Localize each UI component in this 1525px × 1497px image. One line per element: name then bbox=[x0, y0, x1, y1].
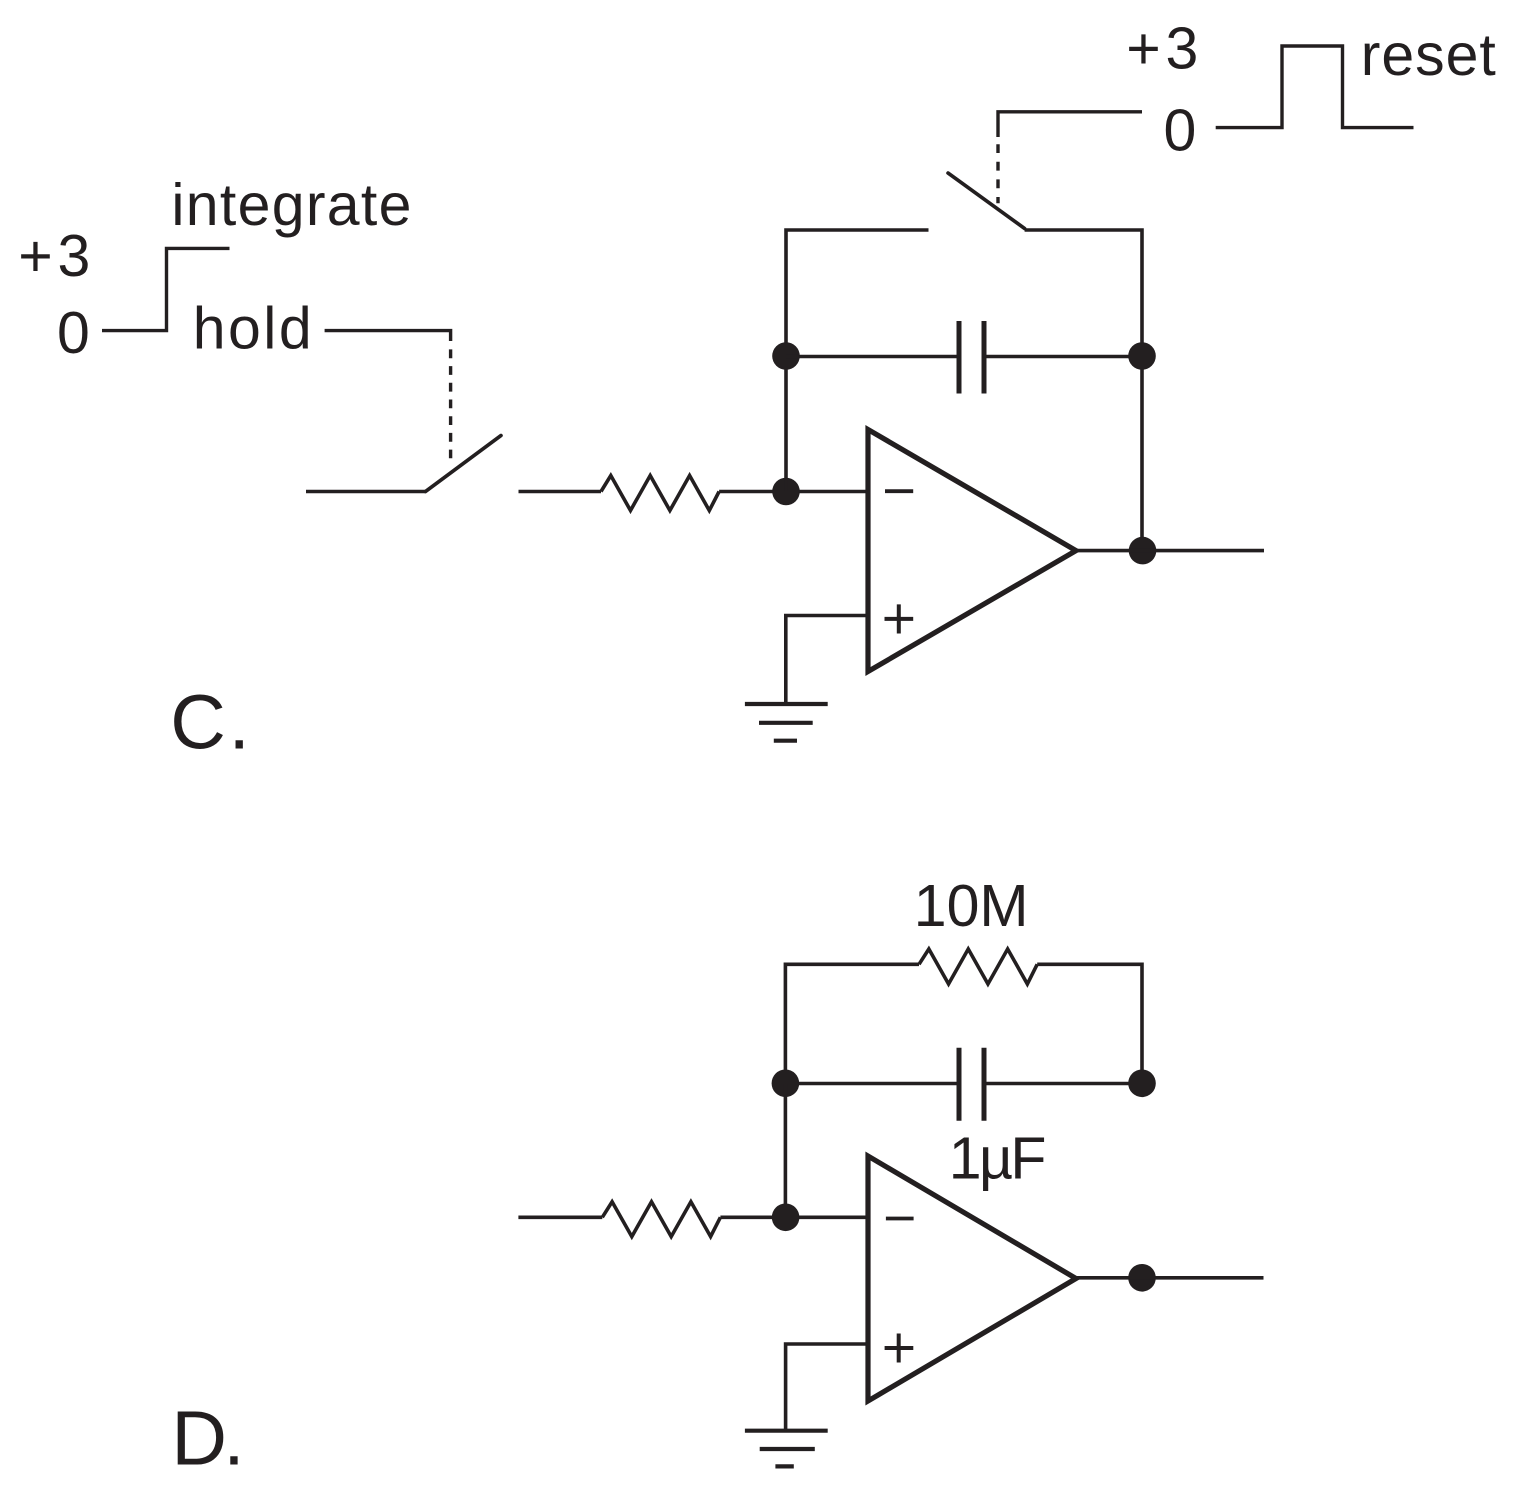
resistor R2 10M feedback (circuit D) bbox=[785, 964, 919, 1083]
wire reset control corner bbox=[998, 112, 1142, 137]
ground (circuit D) bbox=[745, 1431, 828, 1467]
reset switch S2 blade bbox=[948, 173, 1025, 229]
resistor R3 (input, circuit D) bbox=[602, 1202, 720, 1237]
ground (circuit C) bbox=[745, 704, 828, 741]
capacitor C1 plates bbox=[957, 321, 962, 394]
dashed control line to input switch bbox=[449, 349, 452, 458]
op-amp U2 plus sign bbox=[885, 1334, 914, 1363]
svg-text:0: 0 bbox=[57, 300, 90, 366]
dashed control line to reset switch bbox=[996, 144, 999, 203]
op-amp U2 minus sign bbox=[886, 1217, 914, 1221]
svg-text:reset: reset bbox=[1361, 22, 1496, 88]
op-amp U2 triangle bbox=[868, 1156, 1076, 1401]
wire feedback node down to inverting input bbox=[784, 1084, 788, 1218]
svg-text:D.: D. bbox=[171, 1396, 244, 1482]
op-amp U1 triangle bbox=[868, 430, 1076, 672]
svg-text:0: 0 bbox=[1164, 98, 1197, 164]
wire noninverting input to ground bbox=[786, 616, 868, 704]
wire hold level to switch control bbox=[325, 331, 451, 341]
wire resistor to inverting input (circuit D) bbox=[720, 1216, 868, 1220]
svg-text:C.: C. bbox=[170, 679, 250, 765]
node D-right (feedback) bbox=[1128, 1070, 1156, 1098]
reset pulse waveform bbox=[1216, 46, 1414, 128]
wire reset switch to output rail bbox=[1025, 230, 1142, 551]
output wire (circuit D) bbox=[1076, 1276, 1264, 1280]
resistor R1 (input, circuit C) bbox=[601, 476, 719, 511]
wire noninverting input to ground (circuit D) bbox=[786, 1344, 868, 1431]
node D-left (feedback) bbox=[772, 1070, 800, 1098]
input switch S1 left wire bbox=[306, 490, 426, 494]
op-amp U1 minus sign bbox=[885, 489, 913, 493]
svg-text:+3: +3 bbox=[18, 223, 90, 289]
integrate/hold control waveform step bbox=[102, 248, 230, 330]
wire switch to resistor bbox=[519, 490, 602, 494]
node E (summing junction, circuit D) bbox=[772, 1204, 800, 1232]
capacitor C1 right wire bbox=[987, 355, 1143, 359]
node A (summing junction) bbox=[772, 478, 800, 506]
svg-text:+3: +3 bbox=[1126, 15, 1198, 81]
output node (circuit C) bbox=[1129, 537, 1157, 565]
output node (circuit D) bbox=[1128, 1264, 1156, 1292]
capacitor C2 left wire bbox=[785, 1082, 956, 1086]
capacitor C1 left wire bbox=[786, 355, 957, 359]
svg-text:integrate: integrate bbox=[171, 172, 411, 238]
output wire (circuit C) bbox=[1076, 549, 1264, 553]
svg-text:hold: hold bbox=[193, 295, 312, 361]
wire resistor to inverting input bbox=[719, 490, 868, 494]
op-amp U1 plus sign bbox=[885, 604, 914, 633]
node C (feedback right) bbox=[1128, 342, 1156, 370]
svg-text:10M: 10M bbox=[914, 873, 1029, 939]
capacitor C2 plates bbox=[957, 1048, 962, 1121]
node B (feedback left) bbox=[772, 342, 800, 370]
input wire (circuit D) bbox=[518, 1216, 602, 1220]
input switch S1 blade bbox=[426, 436, 502, 492]
capacitor C2 right wire bbox=[987, 1082, 1143, 1086]
wire node A up to feedback rail bbox=[786, 230, 929, 492]
svg-text:1µF: 1µF bbox=[949, 1125, 1047, 1191]
